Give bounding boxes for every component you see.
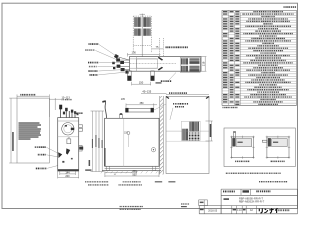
- specification table column lines: [229, 10, 241, 105]
- rear label kyuhaiki-top (separately sold): [172, 103, 175, 105]
- svg-text:RBF-A80S2K-RR-R-T: RBF-A80S2K-RR-R-T: [239, 199, 265, 203]
- plan view fitting stub pipes: [118, 57, 130, 70]
- plan view leader label 5 (oyu setsuzoku): [88, 70, 89, 72]
- plan view grille frame: [180, 58, 200, 73]
- Rinnai logo bold: [259, 208, 277, 213]
- specification table content cells text: [253, 11, 254, 12]
- rear terminal grille upper square: [189, 122, 199, 132]
- example caption right: [271, 161, 272, 163]
- rear view horizontal lines: [166, 130, 209, 132]
- caption smudges under side view: [123, 181, 124, 182]
- BF duct bar on top: [126, 108, 154, 112]
- rear terminal flange outline: [182, 121, 201, 140]
- svg-text:218: 218: [201, 61, 205, 66]
- rear terminal grille lower grid: [188, 133, 199, 141]
- rear grille height dim 400: [206, 121, 213, 141]
- plan view leader label 6 (junkan kanagu shita): [90, 74, 91, 76]
- notes text block inside recess box: [19, 122, 40, 123]
- front view gas valve rect: [67, 139, 71, 144]
- plan view leader label 1 (junkan kanagu ue): [89, 43, 90, 45]
- side view small circle 1: [127, 132, 130, 135]
- small fitting at side view top: [119, 115, 122, 119]
- tiny note left of title block: [181, 203, 182, 204]
- svg-text:45~135: 45~135: [142, 90, 151, 94]
- plan view top dimension line: [128, 53, 161, 57]
- unit note (tan-i:mm): [284, 6, 285, 8]
- svg-text:350: 350: [140, 102, 145, 105]
- flue terminal hatched band upper: [134, 17, 151, 27]
- front view top band: [58, 120, 79, 122]
- shower pipe on side view: [105, 101, 107, 119]
- small text near stack bottom: [85, 169, 91, 170]
- svg-text:150: 150: [139, 80, 144, 84]
- rear view 460 dim: [166, 94, 209, 96]
- side view unit box: [105, 118, 159, 166]
- small note right of stub dim: [156, 82, 162, 83]
- wall thickness dim 45~135: [141, 93, 167, 95]
- floor hatch: [101, 171, 158, 174]
- plan view circulation stub B: [151, 71, 154, 76]
- front leader label 2: [38, 154, 39, 156]
- plan view leader label 2 (shower hose): [85, 49, 86, 51]
- side view left edge dark segment: [104, 148, 106, 166]
- rear view wall opening box: [166, 97, 209, 174]
- wall section: [160, 96, 164, 174]
- kabushikigaisha: [277, 209, 280, 211]
- pipe caps dark: [59, 105, 62, 110]
- bottom note block C (2 lines): [120, 206, 121, 207]
- plan view wall mount bolts: [158, 57, 163, 61]
- examples note below box: [226, 173, 227, 174]
- plan view hidden dashed centerline: [130, 63, 177, 65]
- front leader label 1: [34, 146, 37, 148]
- duct dims 105 & 350: [126, 103, 157, 108]
- specification table left label column text: [223, 11, 227, 12]
- front view pilot window circle: [62, 123, 74, 135]
- side view bottom dims: [105, 171, 159, 177]
- svg-text:100: 100: [132, 51, 137, 55]
- front view right side tabs: [79, 125, 83, 151]
- plan view leader label 4 (gas setsuzoku): [89, 66, 90, 68]
- stub spacing dimension 160: [132, 82, 151, 86]
- front view unit box: [58, 118, 79, 171]
- title katashiki label: [224, 198, 230, 200]
- wall recess box (left): [17, 98, 49, 163]
- recess width dimension 460: [17, 94, 49, 98]
- front view small marks bottom: [62, 161, 64, 163]
- front view bottom dimensions: [58, 171, 79, 178]
- svg-text:2018.05: 2018.05: [208, 209, 218, 212]
- rotated dim texts: [92, 139, 93, 148]
- scale cells texts: [233, 209, 236, 211]
- leader label kyuhaiki top under grille: [169, 73, 176, 81]
- title block outer: [199, 189, 297, 214]
- dim text 460: [20, 94, 21, 96]
- specification table row lines: [222, 13, 297, 106]
- title row1 cells: [241, 189, 251, 195]
- front view top pipe stubs: [61, 106, 75, 118]
- plan view: unit outer box: [130, 57, 202, 72]
- label kyuhaikiguchi 75: [166, 46, 167, 48]
- title block small stamp cells: [199, 200, 208, 206]
- example caption left: [235, 161, 236, 163]
- specification table outer box: [222, 10, 297, 105]
- svg-text:550: 550: [132, 174, 137, 177]
- bottom note block A: [85, 181, 86, 182]
- height dimension stack between views: [91, 111, 105, 172]
- plan view leader label 3 (kyusui setsuzoku): [88, 62, 89, 64]
- bottom row cell lines: [204, 206, 256, 214]
- sakusei label: [200, 209, 204, 211]
- plan view inner wall lines: [130, 57, 159, 72]
- exhaust port label above (kyu-haiki-guchi 75): [152, 48, 163, 50]
- flue terminal hatched band lower: [134, 29, 151, 36]
- plan view circulation stub A: [128, 71, 132, 76]
- front leader label 3: [36, 168, 37, 170]
- recess height dimension 600: [9, 98, 17, 163]
- svg-text:200: 200: [65, 175, 70, 178]
- side view base and floor lines: [105, 167, 159, 169]
- bottom note block B: [119, 184, 120, 185]
- rear terminal grille left column: [182, 129, 189, 141]
- title gaikeisunpouzu: [223, 191, 224, 193]
- example bathroom diagram left: [231, 137, 253, 158]
- svg-text:13~113: 13~113: [62, 96, 71, 99]
- title tsusho cell dark: [243, 190, 250, 192]
- side view internal panel line: [123, 118, 125, 166]
- svg-text:1:10: 1:10: [237, 209, 242, 212]
- plan view wall pass-through lines: [160, 38, 164, 57]
- front view knob right (dark): [66, 148, 70, 154]
- plan view pipe fitting cluster: [112, 54, 128, 74]
- svg-text:105: 105: [121, 98, 126, 101]
- flue terminal top detail: dashed outline: [133, 16, 151, 53]
- small note above title block: [258, 181, 261, 182]
- front view mid line: [58, 136, 79, 138]
- title gasufurogama: [256, 190, 257, 192]
- top gap dimension 13~113: [49, 98, 61, 117]
- plan view exhaust grille hatched quadrants: [181, 58, 188, 64]
- front view dark base band: [58, 169, 79, 171]
- drawing sheet border frame: [2, 3, 298, 208]
- flue terminal center gap: [141, 17, 143, 37]
- installation examples outer box: [224, 128, 295, 167]
- side view circle 2 with dot: [151, 148, 155, 152]
- leader label right of pipes: [76, 112, 77, 114]
- example bathroom diagram right: [267, 137, 289, 158]
- flue terminal centerline: [141, 14, 143, 57]
- side view legs: [106, 166, 109, 170]
- plan view depth dimension 218: [201, 57, 206, 72]
- front view knob left (dark): [58, 152, 62, 158]
- table bottom note line: [222, 107, 225, 108]
